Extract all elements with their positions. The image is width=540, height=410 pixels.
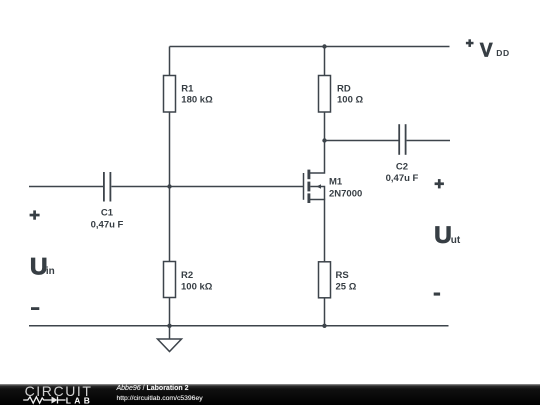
- svg-text:C2: C2: [396, 161, 408, 172]
- label + output: [435, 182, 444, 185]
- ground: [158, 339, 182, 352]
- wire C2 right: [407, 140, 450, 142]
- wire R1 bottom to gate node: [169, 112, 171, 187]
- wire RD top: [324, 47, 326, 76]
- svg-text:M1: M1: [329, 177, 343, 188]
- resistor R1: [164, 76, 176, 113]
- wire drain node down to M1 drain: [310, 141, 325, 174]
- svg-text:ut: ut: [451, 235, 461, 246]
- svg-text:R2: R2: [181, 270, 193, 281]
- capacitor C2: [399, 124, 405, 155]
- node gate: [167, 184, 171, 188]
- wire C1 to gate node: [111, 186, 169, 188]
- wire drain node to C2: [325, 140, 400, 142]
- body tap wire: [310, 187, 324, 200]
- svg-text:100 kΩ: 100 kΩ: [181, 282, 213, 293]
- node RS/ground rail: [322, 324, 326, 328]
- wire gate node down to R2: [169, 187, 171, 262]
- svg-text:0,47u F: 0,47u F: [386, 173, 419, 184]
- label - output: [434, 293, 440, 296]
- capacitor C1: [104, 172, 111, 202]
- label + VDD: [466, 39, 510, 61]
- wire RS bottom to ground rail: [324, 298, 326, 326]
- svg-text:0,47u F: 0,47u F: [91, 220, 124, 231]
- node drain/C2: [322, 138, 326, 142]
- svg-text:RS: RS: [336, 270, 349, 281]
- node VDD/RD: [322, 44, 326, 48]
- wire top rail VDD: [170, 46, 450, 48]
- svg-text:RD: RD: [337, 83, 351, 94]
- footer bar: [0, 384, 540, 405]
- wire RD bottom to drain node: [324, 112, 326, 141]
- svg-text:100 Ω: 100 Ω: [337, 95, 363, 106]
- footer text: [117, 384, 203, 403]
- body arrow: [316, 184, 321, 189]
- svg-text:LAB: LAB: [66, 395, 93, 405]
- resistor RD: [319, 76, 331, 113]
- channel bars: [307, 170, 310, 203]
- svg-text:180 kΩ: 180 kΩ: [181, 95, 213, 106]
- svg-text:C1: C1: [101, 208, 114, 219]
- wire ground stub: [169, 326, 171, 339]
- svg-text:V: V: [480, 41, 493, 62]
- label - input: [31, 307, 39, 310]
- wire input left segment: [29, 186, 104, 188]
- wire M1 source down to RS: [310, 200, 325, 262]
- junction nodes: [167, 44, 326, 328]
- svg-text:25 Ω: 25 Ω: [336, 282, 357, 293]
- wire bottom rail: [29, 325, 449, 327]
- transistor M1 2N7000: [304, 170, 325, 203]
- svg-text:R1: R1: [181, 83, 194, 94]
- gate bar: [303, 173, 305, 200]
- svg-text:in: in: [46, 266, 55, 277]
- CircuitLab logo: [22, 384, 102, 410]
- resistor RS: [319, 262, 331, 298]
- port labels: [30, 39, 510, 310]
- wire R2 bottom to ground rail: [169, 298, 171, 326]
- svg-text:U: U: [434, 222, 452, 249]
- svg-text:2N7000: 2N7000: [329, 189, 362, 200]
- resistor R2: [164, 262, 176, 298]
- wire gate node to M1 gate: [170, 186, 304, 188]
- svg-text:DD: DD: [496, 48, 509, 58]
- wire R1 top: [169, 47, 171, 76]
- label + input: [30, 214, 40, 217]
- node R2/ground rail: [167, 324, 171, 328]
